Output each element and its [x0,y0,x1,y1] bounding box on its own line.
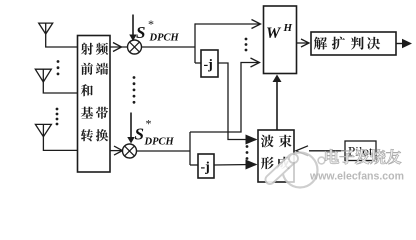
wm dian [325,149,339,164]
antenna ANT2 [35,69,51,82]
wire beamformer output up to W box [276,80,278,130]
svg-text:W: W [266,25,282,42]
arrow S*dpch into M2 (down arrow) [130,113,132,140]
svg-text:S: S [136,23,145,42]
wire pilot to beamformer with open arrow [309,150,345,152]
box -j J1 [201,50,218,77]
text ji [81,107,93,119]
text jue [367,37,380,50]
text he [81,84,93,96]
dots between antenna1 and antenna2 [57,60,60,63]
text she [81,43,94,55]
svg-text:-j: -j [204,58,213,73]
wm you [386,149,401,164]
box despread-decision U3 [311,32,396,55]
svg-text:*: * [146,117,152,131]
wire antenna3 to RF box [43,137,77,151]
wm fa [355,149,370,164]
wire W output to decision box [297,42,309,44]
box W^H combiner U2 [264,6,297,74]
svg-text:S: S [135,125,144,144]
wire J1 output down to beamformer input 1 [218,63,252,140]
text zhuan [81,129,93,141]
arrow S*dpch into M1 (down arrow) [132,15,134,37]
output arrow of decision box [396,43,403,45]
svg-text:www.elecfans.com: www.elecfans.com [309,171,404,183]
multiplier M2 (circle with X) [123,144,137,158]
text pin [96,43,108,55]
text jie [314,37,327,50]
junction riser at x=190 [189,132,191,165]
box Pilot U5 [345,141,376,161]
svg-text:H: H [283,22,293,34]
junction riser at x=195 [194,23,196,63]
wire M1 output to junction [142,46,196,48]
text shu [279,135,292,148]
text dai [96,107,108,119]
wm zi [340,150,355,165]
watermark pencil capsule [270,159,293,180]
wire J2 output to beamformer input 2 [214,164,252,167]
wire antenna1 to RF box [46,34,78,47]
dots between antenna2 and antenna3 [56,108,59,111]
box beamformer U4 [258,130,294,182]
box -j J2 [198,154,214,178]
watermark satellite dot [318,157,325,164]
wire M2 output to junction x=190 [137,150,191,152]
wire RF box to multiplier M1 with open arrow [110,46,128,48]
text kuo [332,37,345,50]
text xing [261,157,274,170]
wire A to W input 2 [190,63,259,133]
text duan [96,63,108,75]
wire RF box to multiplier M2 with open arrow [110,150,122,152]
antenna ANT3 [35,124,51,136]
text qian [81,63,93,75]
RF front-end and baseband conversion box U1 [78,36,111,173]
text cheng [277,157,290,170]
antenna ANT1 [39,23,53,34]
text pan [351,37,364,50]
wire antenna2 to RF box [43,82,77,93]
dots between beamformer inputs [246,145,249,148]
svg-text:DPCH: DPCH [149,33,180,44]
dots between W inputs [245,38,248,41]
multiplier M1 (circle with X) [128,40,142,54]
wire to W input 1 with open arrow [195,23,260,25]
svg-text:-j: -j [201,160,210,175]
text huan [96,129,108,141]
wm shao [370,149,385,164]
dots between M1 and M2 [133,76,136,79]
watermark logo ring [270,153,325,188]
wire junction to -j J2 [190,164,198,166]
svg-text:DPCH: DPCH [144,137,175,148]
text bo [261,135,274,148]
svg-text:*: * [148,17,154,31]
wire junction to -j J1 [195,62,201,64]
